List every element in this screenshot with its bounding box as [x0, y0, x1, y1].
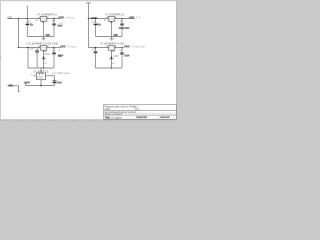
svg-text:, 1 A: , 1 A: [134, 16, 140, 19]
node lower rail junction: [40, 85, 42, 87]
tick bottom 4: [72, 120, 74, 121]
wire bus A left riser: [27, 48, 29, 69]
wire input A1: [8, 18, 41, 20]
capacitor C3 leg: [95, 19, 97, 24]
svg-text:kicad 4.0.7: kicad 4.0.7: [160, 116, 170, 119]
wire U5 right pin: [46, 75, 55, 77]
wire rail A1 ground: [27, 36, 54, 38]
svg-text:GND: GND: [111, 51, 115, 53]
wire J1: [9, 85, 19, 87]
wire output B2: [115, 47, 124, 49]
node A feed junction: [18, 18, 19, 19]
svg-text:100uF: 100uF: [57, 25, 62, 28]
node B cap junction: [95, 18, 96, 19]
op-amp U4 regulator box: [108, 46, 115, 51]
op-amp U5 box: [37, 73, 46, 80]
svg-text:5V supplies: 5V supplies: [111, 116, 122, 119]
wire U4 gnd pin: [111, 50, 113, 68]
titleblock frame: [104, 105, 177, 120]
svg-text:100n: 100n: [97, 24, 101, 27]
svg-text:VO: VO: [112, 48, 115, 50]
svg-text:U? LM340MP-5.0 (5V 0.5A): U? LM340MP-5.0 (5V 0.5A): [27, 42, 59, 46]
capacitor C5 leg: [36, 48, 38, 51]
wire output A2: [47, 47, 61, 49]
node tiny mark: [59, 50, 60, 51]
op-amp U1 regulator box: [40, 17, 47, 22]
node A2 feed corner: [18, 47, 19, 48]
ground B2: [111, 57, 112, 59]
wire input A2: [18, 47, 40, 49]
wire U5 left pin: [34, 75, 37, 77]
node B2 out junction: [121, 47, 122, 48]
tick bottom 5: [90, 120, 92, 121]
capacitor C1 plates: [26, 22, 30, 25]
capacitor C8 leg: [121, 48, 123, 53]
svg-text:U? LM340T-5.0: U? LM340T-5.0: [33, 70, 48, 74]
page background: [0, 0, 180, 123]
capacitor C5 plates: [35, 49, 39, 52]
wire lower left riser: [25, 83, 27, 86]
ground A1: [43, 37, 45, 39]
wire U5 feed: [40, 68, 42, 73]
svg-text:U? LM340MP-5.0: U? LM340MP-5.0: [37, 13, 57, 17]
wire bus A ground: [28, 67, 54, 69]
wire rail B1 ground: [96, 36, 123, 38]
svg-text:Title:: Title:: [105, 116, 111, 119]
node B2 cap junction: [95, 47, 97, 49]
svg-text:100uF/25V: 100uF/25V: [119, 27, 130, 30]
svg-text:GND: GND: [112, 63, 116, 65]
wire output A1: [47, 18, 61, 20]
svg-text:U? LM340MP-5.0 (5V): U? LM340MP-5.0 (5V): [100, 42, 124, 46]
title block: [104, 105, 177, 120]
capacitor C1 leg: [26, 19, 28, 24]
node bus B junction: [111, 67, 112, 68]
capacitor C6 leg: [53, 48, 55, 53]
svg-text:GND: GND: [43, 51, 47, 53]
svg-text:GND: GND: [44, 54, 49, 56]
op-amp U2 regulator box: [108, 17, 115, 22]
svg-text:VO: VO: [112, 19, 115, 21]
svg-text:U? LM340MP-5.0: U? LM340MP-5.0: [105, 13, 124, 17]
wire U5 bottom pin: [40, 80, 42, 86]
svg-text:+12V: +12V: [7, 16, 12, 19]
capacitor C4 leg: [121, 19, 123, 24]
tick bottom 6: [108, 120, 110, 121]
wire input B1: [88, 18, 108, 20]
junction dots: [18, 18, 123, 87]
node J1 end: [18, 90, 20, 93]
ground B1: [111, 37, 113, 39]
svg-text:, 1 A max: , 1 A max: [64, 16, 75, 19]
svg-text:GND: GND: [113, 56, 118, 58]
pin number marks: [39, 17, 117, 47]
svg-text:GND: GND: [42, 22, 46, 24]
node A2 out junction: [53, 47, 54, 48]
capacitor C9 leg: [54, 76, 56, 81]
node A2 cap junction: [27, 47, 29, 49]
wire feed A column: [17, 19, 19, 48]
svg-text:= GND plane: = GND plane: [56, 72, 71, 75]
capacitor C8 plates: [120, 51, 124, 54]
capacitor C7 leg: [95, 48, 97, 52]
svg-text:5V: 5V: [58, 55, 61, 58]
tick left edge: [0, 57, 1, 59]
border edge ticks: [0, 42, 178, 121]
node B out junction: [121, 18, 122, 19]
svg-text:, 1 A max (5V): , 1 A max (5V): [130, 45, 146, 48]
svg-text:GND: GND: [44, 63, 48, 65]
node A out junction: [53, 18, 55, 20]
dark label backers: [8, 16, 171, 118]
node A cap junction: [27, 18, 28, 19]
wire output B1: [115, 18, 135, 20]
capacitor C2 plates: [52, 22, 56, 25]
svg-text:GND: GND: [114, 33, 118, 37]
text labels: [7, 13, 145, 88]
capacitor C7 plates: [94, 50, 98, 53]
svg-text:KiCad E.D.A.: KiCad E.D.A.: [136, 116, 147, 119]
svg-text:GND: GND: [37, 78, 42, 80]
node top border entry: [86, 2, 91, 4]
label pin1 B1: [104, 19, 106, 21]
label pin1 A1: [36, 19, 38, 21]
power flag PWR1: [26, 6, 28, 18]
wire bus B ground: [96, 67, 123, 69]
svg-text:GND: GND: [46, 33, 50, 37]
node B feed junction: [88, 18, 89, 19]
ground A2: [43, 57, 44, 59]
wire feed B column: [87, 3, 89, 48]
wire input B2: [88, 47, 108, 49]
wire U3 gnd pin: [43, 50, 45, 68]
svg-text:100uF: 100uF: [57, 81, 62, 84]
svg-text:100n: 100n: [30, 24, 34, 27]
tick right edge: [176, 41, 178, 43]
wire U2 gnd pin: [111, 21, 113, 36]
svg-text:VO: VO: [44, 19, 47, 21]
capacitor C3 plates: [94, 22, 98, 25]
wire U1 gnd pin: [43, 21, 45, 36]
svg-text:(+5V): (+5V): [124, 44, 129, 48]
capacitor C6 plates: [52, 51, 56, 54]
svg-text:GND1: GND1: [8, 83, 14, 87]
capacitor C9 plates: [53, 80, 57, 83]
capacitor C4 plates: [120, 22, 124, 25]
svg-text:(+5V): (+5V): [129, 15, 134, 19]
svg-text:VO: VO: [44, 48, 47, 50]
capacitor C2 leg: [53, 19, 55, 24]
svg-text:GND: GND: [109, 22, 113, 24]
svg-text:, 1 A max: , 1 A max: [66, 45, 77, 48]
op-amp U3 regulator box: [40, 46, 47, 51]
tick bottom 3: [54, 120, 56, 121]
wire lower rail: [26, 85, 55, 87]
tick bottom 1: [17, 120, 19, 121]
svg-text:+12V: +12V: [24, 81, 30, 84]
tick bottom 2: [35, 120, 37, 121]
node bus A junction: [43, 67, 44, 68]
svg-text:100uF: 100uF: [124, 54, 130, 57]
